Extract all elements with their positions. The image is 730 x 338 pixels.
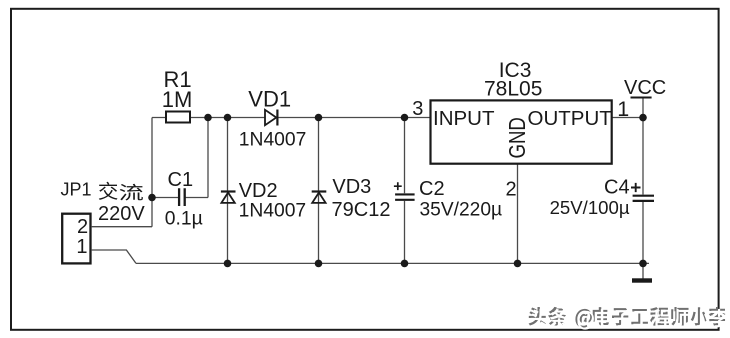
svg-text:C2: C2 xyxy=(419,178,445,200)
svg-text:2: 2 xyxy=(506,179,517,201)
svg-text:1M: 1M xyxy=(162,87,193,112)
svg-text:79C12: 79C12 xyxy=(332,199,391,221)
svg-text:GND: GND xyxy=(505,117,530,158)
svg-text:C1: C1 xyxy=(168,169,194,191)
svg-text:1N4007: 1N4007 xyxy=(239,200,307,221)
svg-text:OUTPUT: OUTPUT xyxy=(528,107,613,130)
svg-text:C4: C4 xyxy=(604,177,630,199)
svg-text:INPUT: INPUT xyxy=(433,107,495,130)
svg-text:VD2: VD2 xyxy=(239,180,278,202)
svg-text:0.1µ: 0.1µ xyxy=(165,209,203,230)
svg-text:2: 2 xyxy=(77,216,88,238)
svg-text:JP1: JP1 xyxy=(61,180,92,200)
svg-text:35V/220µ: 35V/220µ xyxy=(420,200,503,221)
svg-text:VCC: VCC xyxy=(624,77,666,99)
svg-text:78L05: 78L05 xyxy=(484,77,542,100)
svg-text:1: 1 xyxy=(76,236,87,258)
svg-text:1: 1 xyxy=(617,97,629,121)
svg-text:3: 3 xyxy=(412,98,423,120)
svg-text:VD1: VD1 xyxy=(248,87,291,112)
svg-text:1N4007: 1N4007 xyxy=(239,130,307,151)
svg-text:VD3: VD3 xyxy=(332,176,371,198)
svg-text:25V/100µ: 25V/100µ xyxy=(550,197,630,218)
svg-text:220V: 220V xyxy=(98,203,145,225)
